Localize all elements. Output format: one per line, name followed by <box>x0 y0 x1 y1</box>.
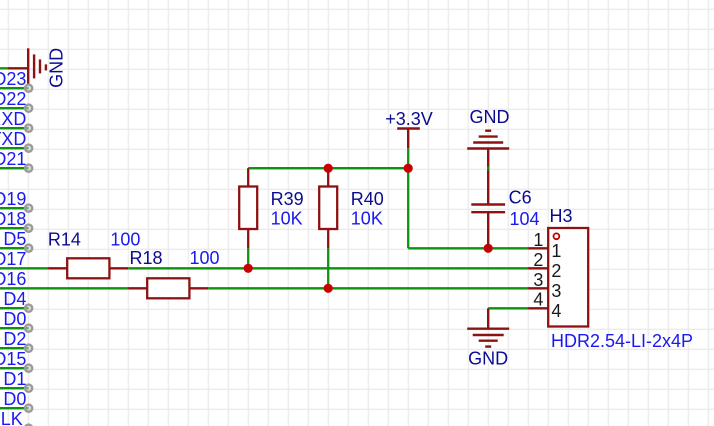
svg-text:C6: C6 <box>509 188 532 208</box>
svg-text:2: 2 <box>533 250 543 270</box>
net label D16 <box>0 269 26 289</box>
wire +3.3V down to pin1 row <box>407 168 409 248</box>
wire pin4 row (GND to header pin 4) <box>488 307 528 309</box>
pin RXD (wire stub + open end) <box>0 125 32 132</box>
ground GND (above C6, rotated 180) <box>467 131 509 149</box>
pin D0b (wire stub + open end) <box>0 405 32 412</box>
ground GND (top-left, rotated 90) <box>8 48 46 84</box>
svg-text:D0: D0 <box>3 389 26 409</box>
svg-text:2: 2 <box>551 261 561 281</box>
svg-text:GND: GND <box>470 107 510 127</box>
svg-text:R39: R39 <box>271 189 304 209</box>
resistor R14 <box>48 258 128 278</box>
net label D5 <box>3 229 26 249</box>
svg-text:104: 104 <box>510 209 540 229</box>
pin D18 (wire stub + open end) <box>0 225 32 232</box>
footprint label HDR2.54-LI-2x4P <box>551 331 693 351</box>
junction C6 / pin1 row <box>484 244 493 253</box>
wire +3.3V rail (horizontal, R39 top to R40 top to power stem) <box>248 167 408 169</box>
value 100 (R14) <box>110 230 140 250</box>
pin number 1 (outside) <box>533 230 543 250</box>
wire D17 net (R14 to header pin 2) <box>128 267 528 269</box>
svg-text:D5: D5 <box>3 229 26 249</box>
value 10K (R40) <box>351 208 383 228</box>
pin D21 (wire stub + open end) <box>0 165 32 172</box>
net label D23 <box>0 69 26 89</box>
net label D0a <box>3 309 26 329</box>
net label CLK <box>0 409 23 426</box>
pin name 4 (inside) <box>551 301 561 321</box>
net label GND (above C6) <box>470 107 510 127</box>
svg-text:TXD: TXD <box>0 129 26 149</box>
svg-text:1: 1 <box>551 241 561 261</box>
svg-text:GND: GND <box>468 348 508 368</box>
svg-text:D18: D18 <box>0 209 26 229</box>
pin TXD (wire stub + open end) <box>0 145 32 152</box>
svg-text:D4: D4 <box>3 289 26 309</box>
value 104 (C6) <box>510 209 540 229</box>
svg-text:CLK: CLK <box>0 409 23 426</box>
svg-text:D0: D0 <box>3 309 26 329</box>
svg-text:D22: D22 <box>0 89 26 109</box>
svg-text:H3: H3 <box>550 206 573 226</box>
svg-text:RXD: RXD <box>0 109 26 129</box>
net label D17 <box>0 249 26 269</box>
junction R40 top / +3.3V rail <box>324 164 333 173</box>
svg-text:GND: GND <box>47 48 67 88</box>
svg-text:HDR2.54-LI-2x4P: HDR2.54-LI-2x4P <box>551 331 693 351</box>
net label D1 <box>3 369 26 389</box>
svg-text:3: 3 <box>533 270 543 290</box>
pin name 3 (inside) <box>551 281 561 301</box>
net label GND (top-left, rotated) <box>47 48 67 88</box>
wire stub between GND and C6 <box>487 166 489 170</box>
svg-text:D17: D17 <box>0 249 26 269</box>
svg-text:D15: D15 <box>0 349 26 369</box>
pin D15 (wire stub + open end) <box>0 365 32 372</box>
pin D2 (wire stub + open end) <box>0 345 32 352</box>
svg-text:D19: D19 <box>0 189 26 209</box>
svg-text:4: 4 <box>533 290 543 310</box>
svg-text:3: 3 <box>551 281 561 301</box>
svg-text:1: 1 <box>533 230 543 250</box>
label R40 <box>351 189 384 209</box>
pin D5 (wire stub + open end) <box>0 245 32 252</box>
svg-text:100: 100 <box>110 230 140 250</box>
svg-text:D2: D2 <box>3 329 26 349</box>
svg-text:D21: D21 <box>0 149 26 169</box>
label R39 <box>271 189 304 209</box>
pin D1 (wire stub + open end) <box>0 385 32 392</box>
pin D4 (wire stub + open end) <box>0 305 32 312</box>
svg-text:+3.3V: +3.3V <box>385 109 433 129</box>
svg-text:D16: D16 <box>0 269 26 289</box>
net label D21 <box>0 149 26 169</box>
pin 1 indicator circle <box>554 233 560 239</box>
net label GND (bottom) <box>468 348 508 368</box>
connector H3 <box>528 228 588 327</box>
net label D0b <box>3 389 26 409</box>
svg-text:R40: R40 <box>351 189 384 209</box>
svg-text:10K: 10K <box>271 208 303 228</box>
svg-text:100: 100 <box>190 248 220 268</box>
wire to GND at top-left <box>0 67 9 69</box>
power +3.3V symbol <box>397 129 420 149</box>
svg-text:D1: D1 <box>3 369 26 389</box>
value 100 (R18) <box>190 248 220 268</box>
label R18 <box>130 248 163 268</box>
pin CLK (open end, clipped) <box>25 425 32 426</box>
net label D15 <box>0 349 26 369</box>
pin D23 (wire stub + open end) <box>0 85 32 92</box>
net label D18 <box>0 209 26 229</box>
net label D4 <box>3 289 26 309</box>
junction R40/D16 <box>324 284 333 293</box>
junction +3.3V stem <box>404 164 413 173</box>
wire R40 bottom to D16 net <box>327 248 329 288</box>
ground GND (below pin 4) <box>467 308 509 346</box>
pin D19 (wire stub + open end) <box>0 205 32 212</box>
pin D0a (wire stub + open end) <box>0 325 32 332</box>
net label D2 <box>3 329 26 349</box>
net label D19 <box>0 189 26 209</box>
resistor R40 <box>319 168 337 248</box>
label C6 <box>509 188 532 208</box>
resistor R39 <box>239 168 257 248</box>
svg-text:R18: R18 <box>130 248 163 268</box>
label R14 <box>48 230 81 250</box>
pin number 2 (outside) <box>533 250 543 270</box>
pin name 2 (inside) <box>551 261 561 281</box>
junction R39/D17 <box>244 264 253 273</box>
net label RXD <box>0 109 26 129</box>
wire power stem (green part) <box>407 148 409 168</box>
svg-text:10K: 10K <box>351 208 383 228</box>
wire R39 bottom to D17 net <box>247 248 249 268</box>
label H3 <box>550 206 573 226</box>
svg-text:R14: R14 <box>48 230 81 250</box>
pin number 3 (outside) <box>533 270 543 290</box>
svg-text:4: 4 <box>551 301 561 321</box>
pin number 4 (outside) <box>533 290 543 310</box>
svg-text:D23: D23 <box>0 69 26 89</box>
resistor R18 <box>128 278 208 298</box>
wire D16 net (R18 to header pin 3) <box>208 287 528 289</box>
wire pin1 row (to header pin 1) <box>408 247 528 249</box>
net label TXD <box>0 129 26 149</box>
net label D22 <box>0 89 26 109</box>
pin D22 (wire stub + open end) <box>0 105 32 112</box>
pin name 1 (inside) <box>551 241 561 261</box>
wire D17 net (left of R14) <box>0 267 48 269</box>
value 10K (R39) <box>271 208 303 228</box>
net label +3.3V <box>385 109 433 129</box>
wire D16 net (left of R18) <box>0 287 128 289</box>
capacitor C6 <box>471 149 505 249</box>
